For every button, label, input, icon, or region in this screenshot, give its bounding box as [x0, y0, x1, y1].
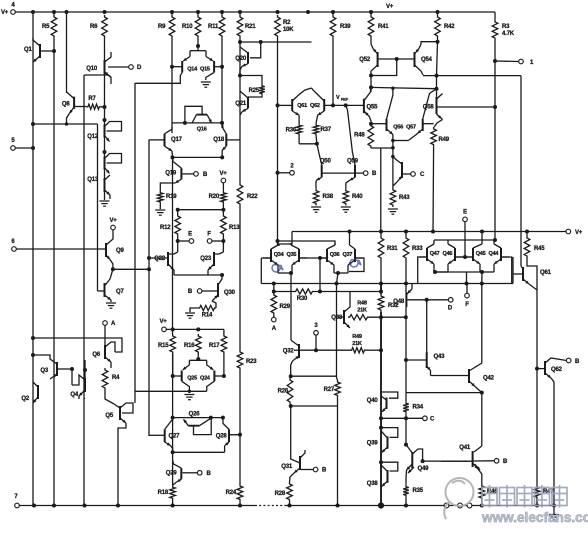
svg-text:R7: R7: [88, 96, 96, 102]
svg-text:R15: R15: [158, 343, 169, 349]
svg-text:Q30: Q30: [224, 290, 236, 296]
svg-text:R24: R24: [226, 490, 237, 496]
svg-text:Q3: Q3: [40, 368, 48, 374]
svg-text:Q2: Q2: [21, 396, 29, 402]
svg-text:Q61: Q61: [540, 270, 552, 276]
svg-text:www.elecfans.com: www.elecfans.com: [481, 510, 588, 525]
svg-text:Q10: Q10: [86, 66, 98, 72]
svg-text:F: F: [465, 302, 469, 308]
svg-text:R9: R9: [158, 24, 166, 30]
svg-text:R33: R33: [412, 246, 423, 252]
svg-text:Q39: Q39: [367, 441, 379, 447]
svg-text:F: F: [207, 232, 211, 238]
svg-text:E: E: [463, 210, 467, 216]
svg-text:V+: V+: [159, 319, 167, 325]
svg-text:Q44: Q44: [489, 251, 500, 257]
svg-text:R23: R23: [246, 359, 257, 365]
svg-text:Q52: Q52: [359, 57, 371, 63]
svg-text:R29: R29: [280, 304, 291, 310]
svg-text:R31: R31: [387, 246, 398, 252]
svg-text:Q40: Q40: [367, 398, 379, 404]
svg-text:Q36: Q36: [330, 252, 340, 258]
svg-text:R11: R11: [208, 24, 219, 30]
svg-text:Q25: Q25: [187, 376, 197, 382]
svg-text:Q12: Q12: [87, 134, 99, 140]
svg-text:Q56: Q56: [393, 125, 403, 131]
svg-text:Q15: Q15: [200, 67, 210, 73]
svg-text:V+: V+: [1, 10, 9, 16]
svg-text:R37: R37: [321, 127, 332, 133]
svg-text:Q17: Q17: [171, 137, 183, 143]
svg-text:Q8: Q8: [62, 102, 70, 108]
svg-text:Q41: Q41: [459, 445, 471, 451]
svg-text:Q16: Q16: [197, 127, 207, 133]
svg-text:R17: R17: [209, 343, 220, 349]
svg-text:V+: V+: [575, 230, 583, 236]
svg-text:Q62: Q62: [551, 367, 563, 373]
svg-text:Q58: Q58: [423, 105, 435, 111]
svg-text:R39: R39: [340, 24, 351, 30]
svg-text:R5: R5: [42, 24, 50, 30]
svg-text:R25: R25: [249, 88, 260, 94]
svg-text:R10: R10: [182, 24, 193, 30]
svg-text:E: E: [188, 232, 192, 238]
svg-text:Q42: Q42: [483, 376, 495, 382]
svg-text:Q19: Q19: [165, 171, 177, 177]
svg-text:Q24: Q24: [200, 376, 211, 382]
svg-text:Q57: Q57: [406, 125, 416, 131]
svg-text:R45: R45: [534, 246, 545, 252]
svg-text:Q31: Q31: [281, 464, 293, 470]
svg-text:Q48: Q48: [393, 299, 405, 305]
svg-text:V+: V+: [219, 171, 227, 177]
svg-text:Q50: Q50: [320, 159, 332, 165]
svg-text:R16: R16: [184, 343, 195, 349]
svg-text:R6: R6: [90, 24, 98, 30]
svg-text:V+: V+: [386, 4, 394, 10]
svg-text:R40: R40: [352, 194, 363, 200]
svg-text:R4: R4: [112, 375, 120, 381]
svg-text:Q20: Q20: [235, 56, 247, 62]
svg-text:R48: R48: [357, 301, 367, 307]
svg-text:Q28: Q28: [216, 434, 228, 440]
svg-text:Q45: Q45: [476, 251, 486, 257]
svg-text:10K: 10K: [283, 27, 294, 33]
svg-text:R30: R30: [297, 296, 308, 302]
svg-text:Q62: Q62: [310, 103, 320, 109]
svg-text:Q61: Q61: [297, 103, 307, 109]
svg-text:R13: R13: [229, 225, 240, 231]
svg-text:Q18: Q18: [213, 137, 225, 143]
svg-text:R2: R2: [283, 20, 291, 26]
svg-text:REF: REF: [341, 98, 349, 102]
svg-text:R26: R26: [278, 389, 289, 395]
svg-text:R48: R48: [354, 133, 365, 139]
svg-text:Q59: Q59: [347, 159, 359, 165]
svg-text:R38: R38: [323, 194, 334, 200]
svg-text:V+: V+: [109, 218, 117, 224]
svg-text:R27: R27: [324, 387, 335, 393]
svg-text:Q34: Q34: [274, 252, 285, 258]
svg-text:Q46: Q46: [443, 251, 453, 257]
svg-text:R20: R20: [209, 194, 220, 200]
svg-text:Q7: Q7: [116, 289, 124, 295]
svg-text:Q27: Q27: [169, 434, 181, 440]
svg-text:Q5: Q5: [105, 413, 113, 419]
svg-text:Q9: Q9: [116, 248, 124, 254]
svg-text:Q55: Q55: [367, 105, 379, 111]
svg-text:Q43: Q43: [434, 354, 446, 360]
svg-text:R18: R18: [158, 490, 169, 496]
svg-text:R41: R41: [378, 24, 389, 30]
svg-text:R28: R28: [275, 491, 286, 497]
svg-text:Q49: Q49: [418, 466, 430, 472]
svg-text:R22: R22: [247, 194, 258, 200]
svg-text:R49: R49: [439, 137, 450, 143]
svg-text:Q37: Q37: [343, 252, 353, 258]
svg-text:21K: 21K: [352, 341, 362, 347]
svg-text:Q22: Q22: [154, 256, 166, 262]
svg-text:Q54: Q54: [421, 57, 433, 63]
svg-text:Q26: Q26: [189, 412, 201, 418]
svg-text:R21: R21: [245, 24, 256, 30]
svg-text:Q21: Q21: [235, 101, 247, 107]
svg-text:Q29: Q29: [166, 471, 178, 477]
svg-text:R49: R49: [352, 334, 362, 340]
svg-text:Q47: Q47: [430, 251, 440, 257]
svg-text:R42: R42: [444, 24, 455, 30]
svg-text:R35: R35: [413, 488, 424, 494]
svg-text:V: V: [336, 95, 340, 101]
svg-text:Q13: Q13: [87, 177, 99, 183]
svg-text:R43: R43: [399, 195, 410, 201]
svg-text:R3: R3: [502, 24, 510, 30]
svg-text:R36: R36: [286, 128, 297, 134]
svg-text:4.7K: 4.7K: [502, 31, 515, 37]
svg-text:R34: R34: [413, 405, 424, 411]
svg-text:Q1: Q1: [24, 47, 32, 53]
svg-text:Q14: Q14: [187, 67, 198, 73]
svg-text:R14: R14: [202, 313, 213, 319]
svg-text:21K: 21K: [357, 308, 367, 314]
svg-text:R19: R19: [166, 194, 177, 200]
svg-text:Q32: Q32: [283, 349, 295, 355]
svg-text:Q35: Q35: [287, 252, 297, 258]
svg-text:R12: R12: [160, 225, 171, 231]
svg-text:Q4: Q4: [70, 392, 78, 398]
svg-text:Q6: Q6: [92, 352, 100, 358]
svg-text:Q38: Q38: [367, 481, 379, 487]
svg-text:Q23: Q23: [200, 256, 212, 262]
